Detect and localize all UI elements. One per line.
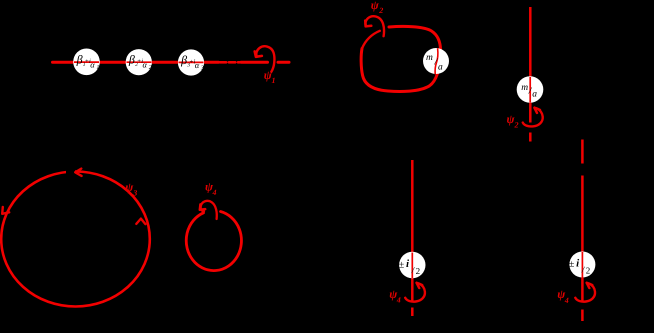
- pole circle m/a on contour C2: [423, 48, 449, 74]
- pole circle P1 (beta1+i alpha1): [73, 49, 100, 76]
- svg-text:±: ±: [569, 259, 575, 270]
- label psi2 (top): [371, 0, 384, 15]
- svg-text:4: 4: [564, 296, 569, 305]
- pole circle P2 (beta2+i alpha2): [126, 49, 152, 75]
- rotation arrow psi2 around vertical line: [523, 108, 543, 127]
- svg-text:m: m: [521, 83, 528, 93]
- svg-text:β: β: [76, 52, 83, 66]
- curl arrow on contour C2: [362, 16, 384, 48]
- wire: vertical branch line bottom-right solid: [581, 176, 584, 303]
- svg-text:±: ±: [399, 259, 405, 270]
- wire: vertical branch line bottom-left: [411, 160, 414, 302]
- pole circle +/-i/2 bottom-left: [399, 252, 426, 278]
- pole circle +/-i/2 bottom-right: [569, 252, 596, 278]
- svg-text:3: 3: [132, 188, 137, 197]
- curl arrow on contour C4: [200, 201, 217, 219]
- arrowhead top of C3: [66, 168, 75, 177]
- pole circle P3 (beta3+i alpha3): [178, 49, 204, 75]
- contour loop C2 (rounded square): [361, 26, 440, 91]
- contour circle C3 (large): [1, 172, 150, 307]
- svg-text:3: 3: [200, 66, 204, 72]
- svg-text:2: 2: [416, 266, 421, 276]
- svg-text:m: m: [426, 53, 433, 63]
- label psi1: [264, 68, 276, 85]
- rotation arrow psi4 bottom-right: [575, 283, 595, 302]
- svg-text:2: 2: [514, 121, 519, 130]
- svg-text:a: a: [438, 63, 443, 73]
- svg-text:2: 2: [149, 65, 152, 71]
- svg-text:α: α: [195, 60, 200, 70]
- rotation arrow psi4 bottom-left: [405, 283, 425, 302]
- wire: vertical branch line top-right: [529, 7, 532, 123]
- label psi3: [125, 180, 137, 198]
- contour loop C4 (small oval): [186, 212, 241, 271]
- wire: bottom-right dash below: [581, 310, 584, 322]
- wire: vertical branch line bottom-right dash top: [581, 140, 584, 164]
- wire: real-axis segment solid right: [241, 61, 268, 64]
- arrowhead right of C3: [136, 219, 145, 225]
- label psi2 (on vertical line): [507, 112, 519, 130]
- wire: real-axis dash far right: [278, 61, 289, 64]
- svg-text:a: a: [532, 90, 537, 100]
- svg-text:2: 2: [378, 6, 383, 15]
- wire: bottom-left dash below: [411, 308, 414, 317]
- wire: vertical branch line dash below: [529, 133, 532, 142]
- svg-text:1: 1: [96, 65, 99, 71]
- rotation arrow psi1 around real axis: [255, 46, 275, 72]
- label psi4 (small oval): [205, 180, 217, 197]
- svg-text:β: β: [180, 53, 187, 67]
- svg-text:2: 2: [586, 265, 591, 275]
- svg-text:4: 4: [212, 188, 217, 197]
- wire: real-axis segment solid left: [53, 61, 219, 64]
- svg-text:1: 1: [272, 76, 276, 85]
- svg-text:4: 4: [396, 296, 401, 305]
- label psi4 (bottom-right line): [557, 287, 569, 305]
- arrowhead left of C3: [2, 207, 9, 214]
- pole circle m/a on vertical line: [517, 76, 544, 103]
- svg-text:α: α: [90, 59, 95, 69]
- wire: real-axis dotted continuation: [220, 61, 240, 64]
- svg-text:β: β: [128, 53, 135, 67]
- svg-text:α: α: [143, 60, 148, 70]
- label psi4 (bottom-left line): [389, 287, 401, 305]
